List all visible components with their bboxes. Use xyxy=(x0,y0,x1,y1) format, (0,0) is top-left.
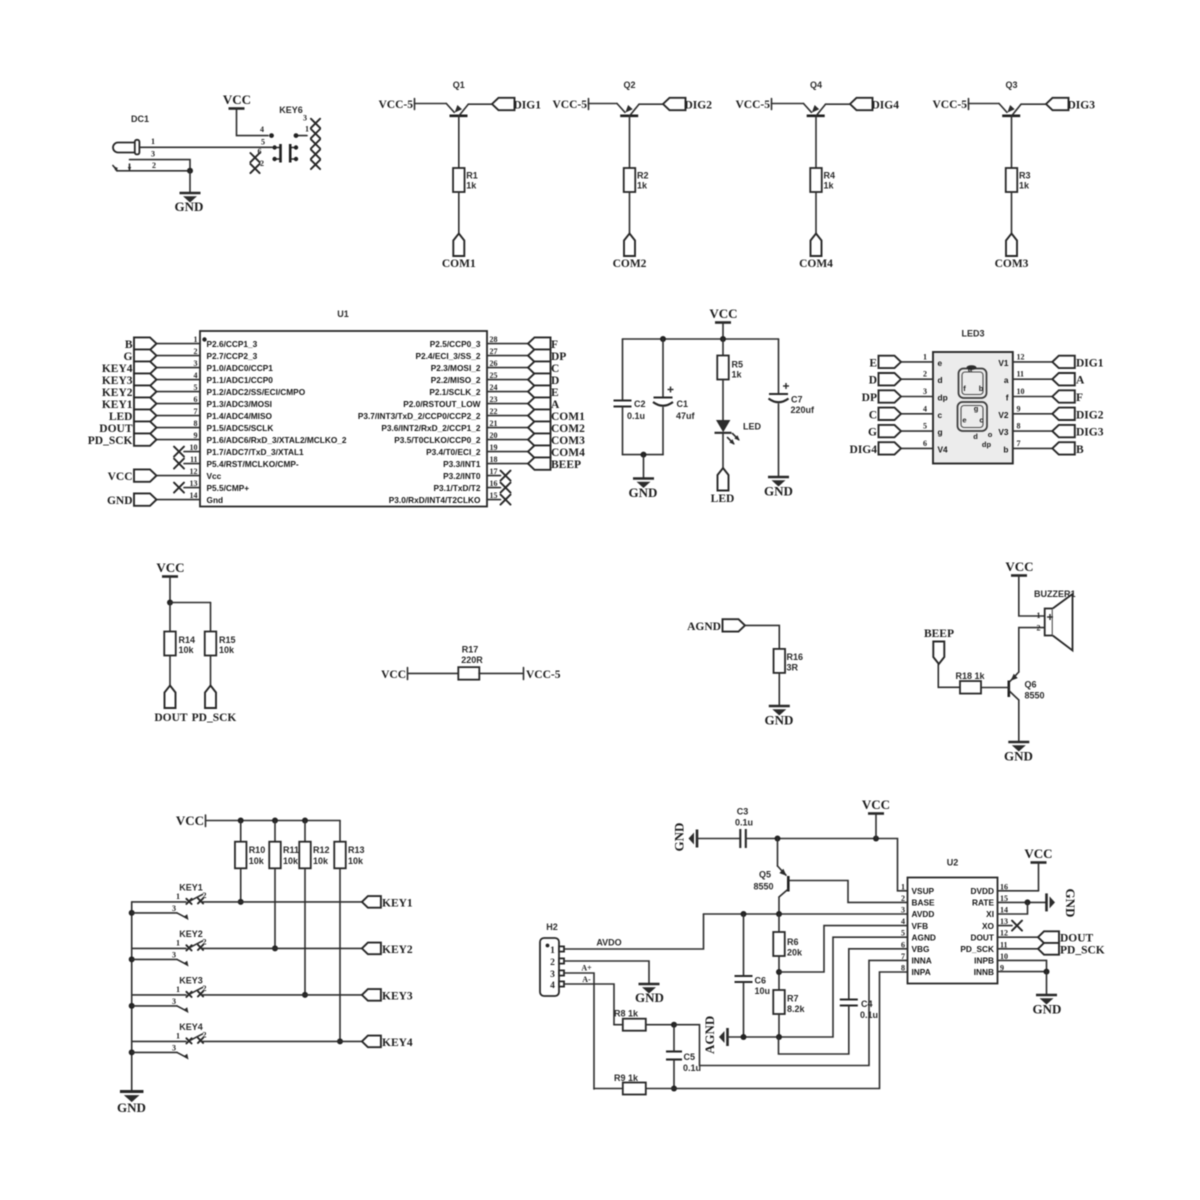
svg-text:8: 8 xyxy=(1017,422,1021,431)
junction C3/Q5 xyxy=(775,836,781,842)
wire Q3 collector to DIG3 xyxy=(1021,103,1046,105)
ground (DC1) xyxy=(175,193,204,214)
svg-text:25: 25 xyxy=(490,371,498,380)
svg-text:C7: C7 xyxy=(791,395,803,405)
wire U1 pin26 to C xyxy=(487,367,528,369)
KEY6 pin stub upper right xyxy=(294,133,307,138)
switch KEY3 (pushbutton) xyxy=(186,987,203,997)
svg-text:1k: 1k xyxy=(1019,181,1030,191)
svg-text:C5: C5 xyxy=(684,1052,696,1062)
svg-text:E: E xyxy=(551,387,559,399)
svg-text:KEY6: KEY6 xyxy=(279,105,303,115)
svg-text:2: 2 xyxy=(901,894,905,903)
svg-text:1: 1 xyxy=(176,938,180,947)
svg-text:c: c xyxy=(938,410,943,420)
switch KEY3 pin2 number xyxy=(203,984,207,993)
wire H2 pin2 to GND xyxy=(564,961,649,984)
svg-text:KEY2: KEY2 xyxy=(102,387,133,399)
connector KEY4 xyxy=(362,1036,413,1049)
net label AVDO xyxy=(596,938,621,948)
svg-text:COM3: COM3 xyxy=(551,435,585,447)
wire LED3 pin7 (b) xyxy=(1013,447,1053,449)
svg-text:10k: 10k xyxy=(313,856,329,866)
junction R8/C5 xyxy=(671,1022,677,1028)
svg-text:R1: R1 xyxy=(466,171,478,181)
wire C2 branch top xyxy=(622,339,624,401)
svg-text:V1: V1 xyxy=(998,358,1009,368)
svg-text:6: 6 xyxy=(194,395,198,404)
svg-text:0.1u: 0.1u xyxy=(627,411,645,421)
no-connect X U1 pin16 xyxy=(487,483,511,493)
svg-text:P1.0/ADC0/CCP1: P1.0/ADC0/CCP1 xyxy=(207,363,274,373)
connector PD_SCK (U1 left) xyxy=(88,433,157,447)
resistor R4 1k xyxy=(810,168,835,192)
svg-text:P3.7/INT3/TxD_2/CCP0/CCP2_2: P3.7/INT3/TxD_2/CCP0/CCP2_2 xyxy=(358,411,481,421)
U2 pin name texts xyxy=(912,886,995,977)
svg-text:E: E xyxy=(869,357,877,369)
switch KEY1 pin1 number xyxy=(176,892,180,901)
junction R12/KEY3 xyxy=(302,992,308,998)
svg-text:DIG4: DIG4 xyxy=(850,444,878,456)
junction VCC rail/R11 xyxy=(272,818,278,824)
LED3 pin11 number xyxy=(1017,370,1025,379)
junction bus KEY4 pin3 xyxy=(129,1049,135,1055)
wire R16 to GND xyxy=(778,673,780,706)
svg-text:2: 2 xyxy=(923,370,927,379)
wire VCC top rail xyxy=(623,338,779,340)
svg-text:GND: GND xyxy=(629,485,658,500)
LED3 pin label a xyxy=(1004,375,1009,385)
power VCC (buzzer) xyxy=(1005,559,1044,616)
svg-text:5: 5 xyxy=(261,138,265,147)
svg-text:KEY1: KEY1 xyxy=(382,897,413,909)
svg-text:1k: 1k xyxy=(637,181,648,191)
connector DIG2 xyxy=(663,98,712,112)
svg-text:V4: V4 xyxy=(938,444,949,454)
svg-text:3: 3 xyxy=(172,904,176,913)
resistor R1 1k xyxy=(453,168,478,192)
svg-text:VFB: VFB xyxy=(912,921,929,931)
svg-text:18: 18 xyxy=(490,455,498,464)
KEY6 right contact block xyxy=(290,144,298,163)
wire KEY4 to connector xyxy=(202,1040,362,1042)
LED3 pin10 number xyxy=(1017,387,1025,396)
LED3 pin4 number xyxy=(923,404,927,413)
svg-text:DOUT: DOUT xyxy=(99,423,133,435)
ground (C3, rotated) xyxy=(672,823,698,852)
connector BEEP (U1 right) xyxy=(528,457,581,471)
svg-text:10k: 10k xyxy=(249,856,265,866)
svg-text:1: 1 xyxy=(1037,611,1041,620)
wire bus to KEY2 xyxy=(132,947,186,949)
LED3 pin label V1 xyxy=(998,358,1009,368)
resistor R5 1k xyxy=(717,356,743,380)
svg-text:0.1u: 0.1u xyxy=(683,1063,701,1073)
svg-text:H2: H2 xyxy=(546,922,558,932)
wire U1 pin28 to F xyxy=(487,343,528,345)
connector COM4 xyxy=(799,234,833,271)
svg-text:10: 10 xyxy=(1017,387,1025,396)
svg-text:Q5: Q5 xyxy=(759,870,771,880)
U1 right pin numbers xyxy=(490,335,498,500)
wire bus to KEY3 xyxy=(132,994,186,996)
svg-text:P3.4/T0/ECI_2: P3.4/T0/ECI_2 xyxy=(426,447,481,457)
connector F (LED3 right) xyxy=(1052,390,1083,404)
KEY6 left contact block xyxy=(272,144,280,163)
ground (R16) xyxy=(765,706,794,728)
svg-text:7: 7 xyxy=(1017,439,1021,448)
svg-text:17: 17 xyxy=(490,467,498,476)
connector DP (U1 right) xyxy=(528,349,566,363)
wire KEY3 pin3 xyxy=(132,997,191,1015)
svg-text:12: 12 xyxy=(1017,352,1025,361)
svg-text:P1.6/ADC6/RxD_3/XTAL2/MCLKO_2: P1.6/ADC6/RxD_3/XTAL2/MCLKO_2 xyxy=(207,435,347,445)
wire C2 branch bottom xyxy=(622,407,624,455)
transistor Q6 label xyxy=(1025,680,1045,701)
wire pullup rail xyxy=(170,602,211,604)
wire DVDD to VCC xyxy=(998,890,1039,892)
junction R6/R7/VFB xyxy=(776,969,782,975)
DC1 sleeve tick xyxy=(128,164,131,171)
svg-text:R13: R13 xyxy=(348,845,365,855)
svg-text:G: G xyxy=(124,351,133,363)
LED3 pin label V2 xyxy=(998,410,1009,420)
svg-text:VCC: VCC xyxy=(223,92,251,107)
svg-text:26: 26 xyxy=(490,359,498,368)
svg-text:DIG3: DIG3 xyxy=(1076,427,1104,439)
wire INNB to GND xyxy=(998,971,1047,973)
wire U1 pin21 to COM2 xyxy=(487,427,528,429)
connector B (U1 left) xyxy=(125,337,157,351)
wire LED3 pin10 (f) xyxy=(1013,396,1053,398)
resistor R15 10k xyxy=(205,632,236,656)
wire U1 pin22 to COM1 xyxy=(487,415,528,417)
ground (H2) xyxy=(635,984,664,1005)
svg-text:PD_SCK: PD_SCK xyxy=(192,712,237,724)
wire U1 pin1 to B xyxy=(157,343,201,345)
svg-text:KEY3: KEY3 xyxy=(382,990,413,1002)
svg-text:21: 21 xyxy=(490,419,498,428)
power VCC (filter) xyxy=(709,306,737,339)
power VCC (keys) xyxy=(176,813,340,828)
junction VCC rail/R10 xyxy=(238,818,244,824)
svg-text:P3.2/INT0: P3.2/INT0 xyxy=(443,471,481,481)
svg-text:g: g xyxy=(974,404,979,413)
svg-text:DP: DP xyxy=(551,351,566,363)
connector PD_SCK (pullup) xyxy=(192,686,237,725)
display LED3 label xyxy=(961,329,984,339)
junction AVDD/R6 xyxy=(776,911,782,917)
wire bus to GND (keys) xyxy=(131,1090,133,1093)
resistor R6 20k xyxy=(773,932,803,958)
svg-text:R11: R11 xyxy=(283,845,299,855)
wire R4 to COM4 xyxy=(815,192,817,234)
svg-text:6: 6 xyxy=(923,439,927,448)
KEY6 pin6 label xyxy=(258,147,262,156)
svg-text:15: 15 xyxy=(490,491,498,500)
svg-text:16: 16 xyxy=(490,479,498,488)
svg-text:AGND: AGND xyxy=(912,932,936,942)
wire KEY4 pin3 xyxy=(132,1043,191,1061)
svg-text:R9 1k: R9 1k xyxy=(614,1073,639,1083)
wire U1 pin20 to COM3 xyxy=(487,439,528,441)
KEY6 no-connect X column right xyxy=(311,119,320,169)
svg-text:20k: 20k xyxy=(787,948,803,958)
svg-text:P2.2/MISO_2: P2.2/MISO_2 xyxy=(431,375,481,385)
LED3 pin12 number xyxy=(1017,352,1025,361)
svg-text:R18 1k: R18 1k xyxy=(955,671,985,681)
connector VCC (U1) xyxy=(108,469,157,483)
svg-text:LED: LED xyxy=(743,422,762,432)
junction AGND/C6 xyxy=(741,1034,747,1040)
svg-text:12: 12 xyxy=(190,467,198,476)
wire AGND to R16 xyxy=(745,625,779,649)
LED3 pin9 number xyxy=(1017,404,1021,413)
svg-text:R16: R16 xyxy=(787,652,804,662)
svg-text:3: 3 xyxy=(194,359,198,368)
svg-text:o: o xyxy=(988,430,993,439)
wire R1 to COM1 xyxy=(458,192,460,234)
ground AGND (rotated) xyxy=(702,1016,728,1054)
wire C3 to VSUP xyxy=(746,839,908,891)
svg-text:VCC-5: VCC-5 xyxy=(526,669,561,681)
svg-text:AGND: AGND xyxy=(687,621,721,633)
switch KEY4 pin1 number xyxy=(176,1031,180,1040)
transistor Q3 (PNP) xyxy=(999,104,1021,116)
junction rail/C1 xyxy=(660,336,666,342)
wire XI to RATE xyxy=(998,902,1028,914)
svg-text:8: 8 xyxy=(194,419,198,428)
KEY6 no-connect X left 1 xyxy=(250,153,259,162)
wire LED3 pin1 (e) xyxy=(898,361,933,363)
connector DIG3 (LED3 right) xyxy=(1052,425,1103,439)
svg-text:G: G xyxy=(868,427,877,439)
wire R12 to KEY3 line xyxy=(304,868,306,995)
svg-text:COM4: COM4 xyxy=(551,447,585,459)
svg-text:DOUT: DOUT xyxy=(1060,933,1094,945)
ground (keys) xyxy=(117,1092,146,1116)
connector AGND xyxy=(687,619,745,633)
junction VCC rail/R12 xyxy=(302,818,308,824)
svg-text:19: 19 xyxy=(490,443,498,452)
svg-text:V3: V3 xyxy=(998,427,1009,437)
net label VCC-5 (R17) xyxy=(524,668,561,682)
transistor Q2 label xyxy=(623,80,635,90)
wire H2 pin4 (A-) xyxy=(564,984,614,1025)
resistor R7 8.2k xyxy=(773,990,805,1014)
connector COM1 (U1 right) xyxy=(528,409,585,423)
svg-text:1: 1 xyxy=(305,125,309,134)
svg-text:DIG1: DIG1 xyxy=(1076,357,1104,369)
svg-text:2: 2 xyxy=(260,159,264,168)
wire bus to KEY4 xyxy=(132,1040,186,1042)
wire U1 pin7 to LED xyxy=(157,415,201,417)
wire R7 to AGND rail xyxy=(778,1014,780,1037)
KEY6 no-connect X left 2 xyxy=(250,164,259,173)
svg-text:F: F xyxy=(551,339,558,351)
KEY6 pin3 label xyxy=(303,114,307,123)
svg-text:10: 10 xyxy=(190,443,198,452)
switch KEY6 label xyxy=(279,105,303,115)
resistor R3 1k xyxy=(1006,168,1031,192)
ground (U2) xyxy=(1033,995,1062,1017)
wire DC1 pin1 to KEY6 xyxy=(140,146,273,148)
wire U1 pin3 to KEY4 xyxy=(157,367,201,369)
wire U1 pin9 to PD_SCK xyxy=(157,439,201,441)
switch KEY2 label xyxy=(179,929,203,939)
svg-text:P2.7/CCP2_3: P2.7/CCP2_3 xyxy=(207,351,258,361)
switch KEY2 pin2 number xyxy=(203,937,207,946)
svg-text:PD_SCK: PD_SCK xyxy=(1060,945,1105,957)
wire VFB feedback xyxy=(779,926,908,972)
U1 left pin numbers xyxy=(190,335,198,500)
svg-text:R7: R7 xyxy=(787,994,799,1004)
svg-text:8550: 8550 xyxy=(753,882,773,892)
wire C4 to AGND xyxy=(779,1006,849,1055)
svg-text:C2: C2 xyxy=(634,399,646,409)
power VCC (DVDD) xyxy=(1024,846,1052,891)
svg-text:VCC: VCC xyxy=(1024,846,1052,861)
svg-text:COM4: COM4 xyxy=(799,258,833,270)
svg-text:KEY4: KEY4 xyxy=(102,363,133,375)
connector F (U1 right) xyxy=(528,337,558,351)
svg-text:INPB: INPB xyxy=(974,956,994,966)
svg-text:3: 3 xyxy=(303,114,307,123)
svg-text:A+: A+ xyxy=(581,964,592,973)
svg-text:e: e xyxy=(962,416,966,425)
switch KEY4 (pushbutton) xyxy=(186,1034,203,1044)
wire LED3 pin8 (V3) xyxy=(1013,430,1053,432)
KEY6 pin2 label xyxy=(260,159,264,168)
wire R11 to KEY2 line xyxy=(274,868,276,948)
connector DC1 barrel jack xyxy=(113,140,139,155)
svg-text:KEY2: KEY2 xyxy=(382,944,413,956)
ground (RATE, rotated) xyxy=(1047,889,1079,918)
resistor R18 1k xyxy=(955,671,985,694)
wire LED3 pin4 (c) xyxy=(898,413,933,415)
svg-text:INNB: INNB xyxy=(974,967,994,977)
svg-text:GND: GND xyxy=(765,713,794,728)
svg-text:GND: GND xyxy=(1033,1002,1062,1017)
switch KEY4 pin2 number xyxy=(203,1030,207,1039)
svg-text:2: 2 xyxy=(194,347,198,356)
wire bottom rail (C1 C2) xyxy=(623,454,664,456)
wire VCC to R14 xyxy=(169,603,171,632)
wire LED3 pin11 (a) xyxy=(1013,378,1053,380)
svg-text:P1.7/ADC7/TxD_3/XTAL1: P1.7/ADC7/TxD_3/XTAL1 xyxy=(207,447,305,457)
capacitor C5 0.1u xyxy=(666,1052,701,1074)
svg-text:PD_SCK: PD_SCK xyxy=(960,944,994,954)
net label VCC (R17) xyxy=(381,668,407,682)
wire R18 to BEEP xyxy=(938,664,959,687)
svg-text:VCC: VCC xyxy=(1005,559,1033,574)
connector C (LED3 left) xyxy=(869,408,901,422)
svg-text:COM2: COM2 xyxy=(551,423,585,435)
wire C6 to AGND rail xyxy=(743,982,745,1037)
svg-text:5: 5 xyxy=(194,383,198,392)
svg-text:1: 1 xyxy=(901,882,905,891)
switch KEY2 pin1 number xyxy=(176,938,180,947)
power VCC (pullups) xyxy=(156,560,184,603)
connector DIG1 (LED3 right) xyxy=(1052,356,1103,370)
svg-text:R5: R5 xyxy=(732,360,744,370)
wire VCC-5 to Q3 emitter xyxy=(969,103,1000,105)
wire C5 bottom xyxy=(673,1060,675,1089)
header H2 label xyxy=(546,922,558,932)
resistor R8 1k xyxy=(614,1009,646,1031)
svg-text:1: 1 xyxy=(176,892,180,901)
connector DOUT (U2) xyxy=(1038,931,1094,944)
svg-text:DIG1: DIG1 xyxy=(514,100,542,112)
net label VCC-5 (Q2) xyxy=(553,99,589,112)
LED3 pin label f xyxy=(1006,393,1009,403)
wire KEY1 pin3 xyxy=(132,904,191,922)
wire C5 top xyxy=(673,1025,675,1052)
svg-text:10: 10 xyxy=(1000,952,1008,961)
connector BEEP xyxy=(924,628,954,664)
wire LED3 pin3 (dp) xyxy=(898,396,933,398)
power VCC (U2 supply) xyxy=(862,797,890,839)
svg-text:Q4: Q4 xyxy=(810,80,822,90)
svg-text:3: 3 xyxy=(901,906,905,915)
connector KEY4 (U1 left) xyxy=(102,361,157,375)
resistor R16 0R xyxy=(774,649,803,673)
svg-text:VCC-5: VCC-5 xyxy=(379,99,414,111)
connector A (U1 right) xyxy=(528,397,560,411)
svg-text:AVDD: AVDD xyxy=(912,909,935,919)
svg-text:b: b xyxy=(979,384,984,393)
svg-text:GND: GND xyxy=(672,823,687,852)
resistor R14 10k xyxy=(164,632,195,656)
svg-text:6: 6 xyxy=(258,147,262,156)
junction bottom rail xyxy=(641,452,647,458)
svg-text:P2.1/SCLK_2: P2.1/SCLK_2 xyxy=(429,387,481,397)
resistor R13 10k xyxy=(334,842,364,869)
LED3 7-segment glyph xyxy=(958,365,988,431)
LED3 pin5 number xyxy=(923,422,927,431)
svg-text:Q1: Q1 xyxy=(453,80,465,90)
svg-text:Q3: Q3 xyxy=(1005,80,1017,90)
svg-text:47uf: 47uf xyxy=(676,411,696,421)
svg-text:C: C xyxy=(869,409,877,421)
svg-text:1: 1 xyxy=(923,352,927,361)
wire R2 to COM2 xyxy=(629,192,631,234)
svg-text:C: C xyxy=(551,363,559,375)
transistor Q2 (PNP) xyxy=(617,104,639,116)
transistor Q1 (PNP) xyxy=(446,104,468,116)
resistor R12 10k xyxy=(299,842,329,869)
svg-text:GND: GND xyxy=(764,484,793,499)
connector DIG2 (LED3 right) xyxy=(1052,408,1103,422)
svg-text:GND: GND xyxy=(635,990,664,1005)
svg-text:VCC: VCC xyxy=(176,813,204,828)
svg-text:20: 20 xyxy=(490,431,498,440)
junction bus KEY3 pin3 xyxy=(129,1003,135,1009)
no-connect X U1 pin17 xyxy=(487,471,511,481)
wire KEY2 pin3 xyxy=(132,950,191,968)
svg-text:DP: DP xyxy=(862,392,877,404)
svg-text:U1: U1 xyxy=(337,309,349,319)
ground (Q6) xyxy=(1004,742,1033,764)
net label VCC-5 (Q1) xyxy=(379,99,415,112)
IC U1 body xyxy=(200,331,487,507)
wire R6 to R7 xyxy=(778,956,780,990)
connector LED (U1 left) xyxy=(109,409,157,423)
wire rail to R11 xyxy=(274,821,276,842)
svg-text:14: 14 xyxy=(190,491,198,500)
svg-text:A: A xyxy=(551,399,560,411)
wire VCC to R17 xyxy=(409,672,459,674)
